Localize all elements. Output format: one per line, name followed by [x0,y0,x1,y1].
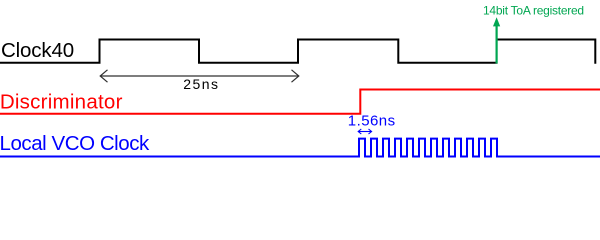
svg-text:Local VCO Clock: Local VCO Clock [0,132,150,155]
svg-text:1.56ns: 1.56ns [348,113,396,130]
1.56ns dimension arrow [358,129,371,134]
wire Clock40 waveform [0,40,595,64]
wire Discriminator waveform [0,90,600,114]
svg-text:Discriminator: Discriminator [0,91,123,114]
svg-text:25ns: 25ns [183,76,219,92]
wire Local VCO Clock waveform [0,139,600,157]
25ns dimension arrow [100,70,299,82]
ToA event arrow (green) [493,17,500,63]
svg-text:14bit ToA registered: 14bit ToA registered [483,4,584,18]
svg-text:Clock40: Clock40 [1,39,74,62]
